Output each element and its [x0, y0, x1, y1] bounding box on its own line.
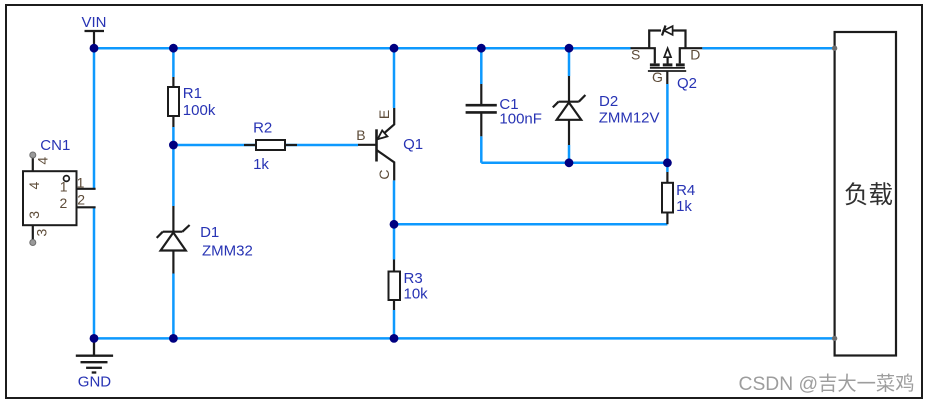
- svg-text:3: 3: [26, 211, 42, 219]
- svg-text:CSDN @吉大一菜鸡: CSDN @吉大一菜鸡: [739, 373, 915, 395]
- svg-text:C: C: [376, 169, 392, 179]
- svg-text:ZMM32: ZMM32: [202, 243, 253, 260]
- svg-text:D: D: [690, 47, 700, 63]
- svg-text:GND: GND: [78, 374, 112, 391]
- svg-text:D2: D2: [599, 93, 618, 110]
- svg-text:4: 4: [34, 157, 50, 165]
- svg-text:G: G: [652, 69, 663, 85]
- svg-text:Q1: Q1: [403, 136, 423, 153]
- svg-text:S: S: [631, 47, 640, 63]
- svg-text:R2: R2: [253, 119, 272, 136]
- svg-text:100nF: 100nF: [499, 111, 542, 128]
- svg-text:ZMM12V: ZMM12V: [599, 109, 660, 126]
- svg-text:4: 4: [26, 182, 42, 190]
- svg-text:2: 2: [60, 195, 68, 211]
- svg-text:1k: 1k: [676, 198, 692, 215]
- svg-text:R1: R1: [183, 85, 202, 102]
- svg-text:R4: R4: [676, 182, 695, 199]
- svg-text:10k: 10k: [404, 285, 429, 302]
- svg-text:负载: 负载: [844, 181, 893, 209]
- svg-text:B: B: [356, 127, 365, 143]
- svg-text:E: E: [376, 110, 392, 119]
- svg-text:VIN: VIN: [82, 14, 107, 31]
- svg-text:3: 3: [34, 229, 50, 237]
- svg-text:1k: 1k: [253, 156, 269, 173]
- svg-text:100k: 100k: [183, 102, 216, 119]
- svg-text:1: 1: [77, 174, 85, 190]
- svg-text:Q2: Q2: [677, 75, 697, 92]
- svg-text:D1: D1: [200, 224, 219, 241]
- svg-text:CN1: CN1: [40, 137, 70, 154]
- svg-text:1: 1: [60, 178, 68, 194]
- svg-text:2: 2: [77, 192, 85, 208]
